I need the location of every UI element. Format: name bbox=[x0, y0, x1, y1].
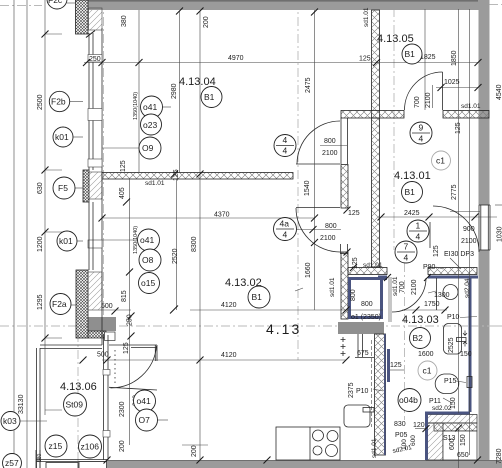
svg-text:B1: B1 bbox=[405, 187, 416, 197]
hatched wall under 4.13.05 right segment bbox=[443, 111, 489, 119]
navy wall bath top right segment bbox=[428, 276, 478, 279]
tag B1 room1 bbox=[402, 182, 423, 203]
svg-text:4: 4 bbox=[283, 230, 288, 240]
svg-text:F5: F5 bbox=[58, 183, 68, 193]
svg-text:2775: 2775 bbox=[451, 184, 458, 200]
navy wall hall left vertical bbox=[348, 277, 351, 319]
navy door leaf bath left bbox=[387, 349, 390, 382]
axis dashed vertical bath bbox=[404, 246, 406, 420]
navy wall bath bottom bbox=[425, 412, 470, 415]
svg-text:O9: O9 bbox=[142, 143, 154, 153]
niche inner box bbox=[443, 431, 477, 460]
tag o23 bbox=[141, 114, 162, 135]
svg-text:1300: 1300 bbox=[434, 292, 450, 299]
bottom right niche vertical hatch bbox=[426, 423, 443, 460]
top concrete wall bbox=[88, 0, 489, 10]
svg-text:sd2.04: sd2.04 bbox=[464, 278, 471, 298]
svg-text:150: 150 bbox=[460, 434, 467, 446]
door arc room 4.13.05 bbox=[405, 72, 443, 110]
svg-text:sd1.01: sd1.01 bbox=[145, 180, 165, 187]
svg-text:8300: 8300 bbox=[191, 236, 198, 252]
hatched wall under 4.13.05 left segment bbox=[341, 111, 404, 119]
svg-text:k03: k03 bbox=[3, 416, 17, 426]
svg-text:1600: 1600 bbox=[418, 351, 434, 358]
svg-text:7280: 7280 bbox=[496, 448, 502, 464]
svg-text:sd1.01: sd1.01 bbox=[363, 7, 370, 27]
svg-text:1660: 1660 bbox=[305, 262, 312, 278]
svg-text:1025: 1025 bbox=[444, 79, 460, 86]
svg-text:800: 800 bbox=[361, 301, 373, 308]
svg-text:o41: o41 bbox=[137, 396, 151, 406]
horizontal dimension lines bbox=[45, 34, 502, 445]
tag o41 top bbox=[141, 96, 163, 118]
svg-text:sd1.01: sd1.01 bbox=[392, 276, 399, 296]
concrete block hall shaft bbox=[338, 322, 384, 334]
svg-text:o41: o41 bbox=[140, 235, 154, 245]
svg-text:4.13.05: 4.13.05 bbox=[377, 33, 414, 45]
svg-text:z15: z15 bbox=[49, 441, 63, 451]
kitchen-bath hatched wall bbox=[375, 334, 386, 455]
tag z15 bbox=[45, 435, 67, 457]
horizontal hatched wall sd1.01 under room 4.13.04 bbox=[102, 173, 293, 180]
svg-text:k01: k01 bbox=[55, 132, 69, 142]
hob circles bbox=[313, 430, 339, 457]
tag k01 lower bbox=[57, 231, 77, 251]
tag o04b bbox=[398, 389, 421, 412]
svg-text:sd2.02: sd2.02 bbox=[432, 405, 452, 412]
svg-text:1030: 1030 bbox=[497, 226, 502, 242]
navy wall hall top bbox=[348, 277, 387, 280]
bathtub bbox=[444, 324, 468, 355]
svg-text:125: 125 bbox=[123, 342, 130, 354]
svg-text:P90: P90 bbox=[423, 264, 436, 271]
tag k03 bbox=[1, 412, 20, 431]
tag B2 bath bbox=[410, 328, 431, 349]
svg-text:sd1.01: sd1.01 bbox=[371, 438, 378, 458]
tag F5 bbox=[53, 177, 75, 199]
fraction circle 7/4 bbox=[395, 241, 417, 263]
svg-text:2375: 2375 bbox=[348, 382, 355, 398]
hall jamb double line bbox=[355, 334, 374, 358]
svg-text:c1: c1 bbox=[436, 156, 445, 166]
svg-text:4.13.01: 4.13.01 bbox=[394, 170, 431, 182]
bottom-left corner wall lines bbox=[36, 450, 107, 468]
svg-text:630: 630 bbox=[37, 182, 44, 194]
bottom concrete wall bbox=[107, 460, 502, 468]
svg-text:P10: P10 bbox=[356, 388, 369, 395]
window glass lines upper bbox=[89, 28, 102, 345]
svg-text:800: 800 bbox=[350, 289, 357, 301]
svg-text:k01: k01 bbox=[59, 236, 73, 246]
door arc room 4.13.01 top (4/4) bbox=[297, 121, 340, 164]
svg-text:B2: B2 bbox=[413, 333, 424, 343]
svg-text:F2a: F2a bbox=[52, 299, 67, 309]
concrete pier left lower bbox=[88, 317, 116, 331]
tag F2b bbox=[49, 91, 69, 111]
svg-text:o23: o23 bbox=[143, 120, 157, 130]
bottom right niche hatch band bbox=[426, 415, 477, 424]
svg-text:250: 250 bbox=[127, 314, 134, 326]
svg-text:B1: B1 bbox=[252, 292, 263, 302]
svg-text:sd1.01: sd1.01 bbox=[363, 262, 383, 269]
svg-text:800: 800 bbox=[324, 138, 336, 145]
svg-text:EI30 DP3: EI30 DP3 bbox=[444, 251, 474, 258]
svg-text:125: 125 bbox=[173, 169, 180, 181]
left wall hatched pier top bbox=[76, 0, 103, 34]
left wall hatched pier lower bbox=[76, 270, 115, 341]
svg-text:2980: 2980 bbox=[171, 83, 178, 99]
svg-text:2520: 2520 bbox=[172, 248, 179, 264]
washbasin round bbox=[443, 285, 458, 300]
svg-text:1540: 1540 bbox=[304, 180, 311, 196]
svg-text:1750: 1750 bbox=[424, 301, 440, 308]
navy stub left of bath door bbox=[378, 276, 387, 279]
plus marks shaft bbox=[341, 337, 346, 356]
svg-text:4.13.06: 4.13.06 bbox=[60, 381, 97, 393]
svg-text:1350(1040): 1350(1040) bbox=[133, 92, 139, 120]
navy wall bath right vertical bbox=[469, 277, 472, 412]
tag B1 room5 bbox=[402, 44, 422, 64]
svg-text:sd1.01: sd1.01 bbox=[329, 277, 336, 297]
svg-text:4540: 4540 bbox=[496, 84, 502, 100]
svg-text:O7: O7 bbox=[139, 415, 151, 425]
tag B1 room2 bbox=[248, 286, 270, 308]
tag St09 bbox=[64, 393, 87, 416]
svg-text:200: 200 bbox=[119, 440, 126, 452]
svg-text:P05: P05 bbox=[395, 432, 408, 439]
svg-text:o41: o41 bbox=[143, 102, 157, 112]
svg-text:o15: o15 bbox=[141, 278, 155, 288]
svg-text:4.13: 4.13 bbox=[266, 321, 301, 337]
svg-text:250: 250 bbox=[89, 56, 101, 63]
tag F2a bbox=[50, 294, 71, 315]
fraction circle 4a/4 bbox=[274, 218, 297, 241]
svg-text:2100: 2100 bbox=[411, 279, 418, 295]
svg-text:405: 405 bbox=[119, 187, 126, 199]
axis dashed vertical left window wall bbox=[103, 0, 105, 335]
svg-text:2425: 2425 bbox=[404, 210, 420, 217]
tag O8 bbox=[139, 249, 161, 271]
svg-text:7: 7 bbox=[404, 242, 409, 252]
svg-text:sd1.01: sd1.01 bbox=[461, 103, 481, 110]
svg-text:F2c: F2c bbox=[48, 0, 63, 5]
svg-text:c1: c1 bbox=[423, 366, 432, 376]
tag c1 bath gray bbox=[418, 361, 437, 380]
door 4/4 leaf bbox=[296, 163, 340, 165]
svg-text:120: 120 bbox=[413, 422, 425, 429]
tag O9 bbox=[139, 137, 161, 159]
svg-text:650: 650 bbox=[457, 452, 469, 459]
toilet P15 bbox=[435, 374, 472, 394]
svg-text:800: 800 bbox=[325, 223, 337, 230]
building edge walls bottom-left bbox=[37, 348, 41, 468]
window glass lines lower bbox=[89, 202, 93, 270]
fraction circle 4/4 bbox=[274, 135, 296, 157]
axis overlay over right wall bbox=[470, 325, 502, 327]
svg-text:4: 4 bbox=[404, 253, 409, 263]
svg-text:4370: 4370 bbox=[214, 212, 230, 219]
svg-text:125: 125 bbox=[348, 210, 360, 217]
svg-text:2100: 2100 bbox=[425, 92, 432, 108]
axis dashed vertical center bbox=[297, 0, 299, 360]
svg-text:125: 125 bbox=[359, 56, 371, 63]
svg-text:o1 (2350): o1 (2350) bbox=[351, 314, 381, 321]
right concrete wall bbox=[479, 0, 490, 205]
kitchen sink bbox=[344, 405, 374, 427]
svg-text:150: 150 bbox=[450, 397, 457, 409]
svg-text:4120: 4120 bbox=[221, 352, 237, 359]
svg-text:200: 200 bbox=[191, 445, 198, 457]
svg-text:4120: 4120 bbox=[221, 302, 237, 309]
svg-text:580: 580 bbox=[37, 453, 43, 462]
svg-text:z106: z106 bbox=[81, 442, 100, 452]
svg-text:o04b: o04b bbox=[399, 395, 418, 405]
bottom right niche crosshatch band bbox=[434, 423, 477, 431]
svg-text:z57: z57 bbox=[5, 458, 19, 468]
svg-text:125: 125 bbox=[390, 362, 402, 369]
vertical hatched wall hall left bbox=[341, 118, 348, 319]
svg-text:9: 9 bbox=[419, 123, 424, 133]
svg-text:815: 815 bbox=[121, 290, 128, 302]
door arc room 4.13.06 bbox=[111, 346, 157, 388]
navy o1 right bbox=[380, 277, 383, 319]
vertical hatched wall right of 4.13.02 bbox=[372, 118, 380, 267]
door arc bath P90 bbox=[392, 278, 437, 312]
svg-text:4970: 4970 bbox=[228, 55, 244, 62]
svg-text:125: 125 bbox=[455, 122, 462, 134]
svg-text:P11: P11 bbox=[429, 398, 441, 405]
svg-text:675: 675 bbox=[357, 350, 369, 357]
svg-text:2300: 2300 bbox=[119, 401, 126, 417]
svg-text:500: 500 bbox=[101, 303, 113, 310]
svg-text:4: 4 bbox=[419, 134, 424, 144]
tag c1 room1 gray bbox=[432, 151, 451, 170]
thin lines: room 4.13.06 top wall bbox=[40, 345, 157, 390]
svg-text:150: 150 bbox=[460, 351, 472, 358]
navy wall bath bottom-left vertical bbox=[425, 412, 428, 460]
door arc hall (4a/4) bbox=[296, 208, 340, 253]
svg-text:4a: 4a bbox=[280, 219, 290, 229]
svg-text:125: 125 bbox=[120, 160, 127, 172]
svg-text:1295: 1295 bbox=[37, 294, 44, 310]
left wall hatched pier F5 bbox=[83, 170, 102, 202]
kitchen counter bbox=[276, 427, 340, 460]
navy o1 bottom bbox=[348, 316, 383, 319]
svg-text:2475: 2475 bbox=[305, 77, 312, 93]
svg-text:2100: 2100 bbox=[461, 238, 477, 245]
svg-text:B1: B1 bbox=[204, 92, 215, 102]
svg-text:2525: 2525 bbox=[448, 337, 455, 353]
right wall french window glazing bbox=[479, 205, 490, 250]
axis dashed horizontal main bbox=[0, 325, 502, 327]
tag k01 upper bbox=[53, 127, 73, 147]
tag o41 door bbox=[134, 390, 156, 412]
svg-text:600: 600 bbox=[449, 438, 456, 450]
svg-text:4: 4 bbox=[416, 232, 421, 242]
fraction circle 1/4 room1 bbox=[407, 220, 429, 242]
svg-text:1850: 1850 bbox=[451, 50, 458, 66]
bath top hatched wall right segment bbox=[428, 268, 477, 275]
svg-text:4: 4 bbox=[283, 146, 288, 156]
tag z57 bbox=[3, 454, 22, 468]
tag B1 room4 bbox=[201, 87, 222, 108]
svg-text:380: 380 bbox=[121, 15, 128, 27]
tag O7 bbox=[136, 409, 158, 431]
svg-text:125: 125 bbox=[352, 257, 359, 269]
svg-text:125: 125 bbox=[433, 245, 440, 257]
tag F2c bbox=[47, 0, 67, 9]
svg-text:33130: 33130 bbox=[18, 394, 25, 414]
svg-text:700: 700 bbox=[414, 96, 421, 108]
svg-text:900: 900 bbox=[463, 226, 475, 233]
axis dashed horizontal top-right stub bbox=[489, 4, 502, 6]
svg-text:2100: 2100 bbox=[320, 235, 336, 242]
room 4.13.06 left window wall bbox=[103, 335, 110, 460]
svg-text:700: 700 bbox=[399, 281, 406, 293]
svg-text:B1: B1 bbox=[405, 49, 416, 59]
vertical hatched wall between 4.13.04 and 4.13.05 bbox=[372, 10, 380, 118]
axis dashed vertical room 4.13.05 bbox=[393, 8, 395, 250]
navy face kitchen-bath wall bbox=[384, 334, 386, 455]
svg-text:F2b: F2b bbox=[51, 97, 66, 107]
svg-text:200: 200 bbox=[203, 16, 210, 28]
fraction circle 9/4 bbox=[410, 122, 432, 144]
svg-text:1: 1 bbox=[416, 221, 421, 231]
svg-text:P15: P15 bbox=[444, 378, 457, 385]
svg-text:P10: P10 bbox=[447, 314, 460, 321]
door arc room 4.13.01 bottom (1/4) bbox=[430, 206, 479, 252]
svg-text:2500: 2500 bbox=[37, 94, 44, 110]
svg-text:500: 500 bbox=[97, 352, 109, 359]
svg-text:O8: O8 bbox=[142, 255, 154, 265]
svg-text:4.13.03: 4.13.03 bbox=[402, 314, 439, 326]
svg-text:1200: 1200 bbox=[37, 236, 44, 252]
svg-text:830: 830 bbox=[394, 421, 406, 428]
bath top hatched wall left segment bbox=[348, 268, 387, 275]
tag o15 bbox=[139, 273, 160, 294]
svg-text:St09: St09 bbox=[66, 400, 84, 410]
window mullion blocks bbox=[88, 55, 102, 249]
door 4a jamb lines bbox=[341, 244, 348, 254]
svg-text:2100: 2100 bbox=[322, 150, 338, 157]
svg-text:4: 4 bbox=[283, 135, 288, 145]
axis dashed horizontal top-left bbox=[0, 5, 42, 7]
tag o41 mid bbox=[138, 229, 160, 251]
tag z106 bbox=[79, 435, 102, 458]
